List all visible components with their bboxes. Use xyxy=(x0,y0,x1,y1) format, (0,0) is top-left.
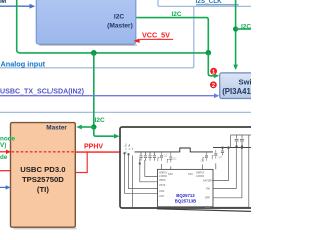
svg-text:USBC_TX_SCL/SDA(IN2): USBC_TX_SCL/SDA(IN2) xyxy=(0,87,85,95)
wire: IC top pin stubs xyxy=(162,163,216,169)
svg-text:2: 2 xyxy=(212,83,215,89)
wire: green right vertical down into switch top xyxy=(235,0,237,66)
svg-text:VSYS: VSYS xyxy=(159,184,166,187)
wire: green from junction down then arrow into switch left edge xyxy=(208,53,215,76)
wire: left rail verticals xyxy=(125,154,158,208)
svg-text:Analog input: Analog input xyxy=(1,60,46,69)
svg-text:SRP: SRP xyxy=(205,197,210,200)
wire: green from lower junction down then arrow right into schematic box xyxy=(94,127,116,136)
node: small dots on left rails xyxy=(124,153,126,155)
svg-text:USBC PD3.0: USBC PD3.0 xyxy=(20,165,65,174)
wire: schematic bottom gnd line sloped right part xyxy=(157,209,251,212)
op: schematic container (BQ25713 reference design) xyxy=(120,127,255,208)
wire: green arrow left into Master pin of PD box xyxy=(80,126,94,128)
svg-text:de: de xyxy=(0,154,8,161)
op: USBC PD3.0 TPS25750D box U2 xyxy=(11,123,77,230)
svg-text:Q3: Q3 xyxy=(201,158,205,162)
svg-text:Q1: Q1 xyxy=(164,154,168,158)
svg-text:SRN: SRN xyxy=(205,206,210,209)
svg-text:LODR1: LODR1 xyxy=(159,175,168,178)
node VCC_5V label with red arrow xyxy=(134,31,174,43)
node: green junction dot at (93.8,127) xyxy=(91,124,96,129)
svg-text:I2C: I2C xyxy=(95,117,105,124)
wire: blue arrow into I2C master box xyxy=(0,5,32,7)
op: I2C master MCU box U1 xyxy=(36,0,137,46)
svg-text:BATDRV: BATDRV xyxy=(203,180,213,183)
svg-text:VCC_5V: VCC_5V xyxy=(142,31,170,40)
wire: green left vertical + bottom horizontal bus xyxy=(17,0,208,53)
capacitor C4 xyxy=(153,152,156,161)
wire: red branch down and left back into PD box xyxy=(76,152,87,172)
transistor Q3 xyxy=(201,152,208,163)
wire: right bus xyxy=(213,147,251,149)
node I2S_CLK label xyxy=(196,0,239,5)
diode D1 xyxy=(240,135,244,146)
wire: blue arrow into PD box left edge xyxy=(0,186,7,188)
svg-text:TPS25750D: TPS25750D xyxy=(22,175,64,184)
wire: red dashed PPHV inside PD box xyxy=(12,151,76,153)
svg-text:ACN: ACN xyxy=(159,190,164,193)
svg-text:BQ25713B: BQ25713B xyxy=(175,199,197,204)
svg-text:Q4: Q4 xyxy=(218,155,222,159)
capacitor C3 xyxy=(148,152,151,161)
wire: green I2C from box right edge to corner down xyxy=(136,18,208,52)
wire: green branch to right edge xyxy=(236,28,251,30)
op-amp U3: BQ25713 IC block xyxy=(158,169,214,209)
svg-text:I2C: I2C xyxy=(114,14,124,21)
svg-text:I2C: I2C xyxy=(241,23,251,30)
wire: purple USBC_TX_SCL/SDA arrow to switch xyxy=(0,95,216,97)
node: red numbered circle 1 xyxy=(210,68,217,76)
capacitor C2 xyxy=(144,152,147,161)
svg-text:SAC: SAC xyxy=(188,173,193,176)
capacitor C1 xyxy=(139,152,142,161)
wire: blue frame bracket top (I2S) xyxy=(158,0,251,6)
diode D2 xyxy=(235,135,239,146)
node: green junction dot at (208.3,52.7) xyxy=(206,50,212,56)
svg-text:Master: Master xyxy=(46,125,67,132)
wire: blue analog-input rail with riser at x=193.8 xyxy=(0,6,194,68)
wire: red line into PD box left edge lower xyxy=(0,170,11,172)
wire: red PPHV solid to schematic with arrow xyxy=(75,151,130,153)
svg-text:BQ25713: BQ25713 xyxy=(176,193,195,198)
svg-text:VBUS: VBUS xyxy=(159,179,166,182)
transistor Q4 xyxy=(212,150,222,159)
transistor Q2 xyxy=(167,152,177,163)
transistor Q1 xyxy=(158,152,168,161)
svg-text:LODR2: LODR2 xyxy=(196,175,205,178)
svg-text:Switch: Switch xyxy=(239,78,251,87)
node: green junction dot at (235.6,29) xyxy=(233,26,238,31)
svg-text:ACP: ACP xyxy=(159,195,164,198)
node: dots on right bus xyxy=(222,147,224,149)
svg-text:1: 1 xyxy=(212,69,215,75)
wire: red dashed PPHV into PD box left xyxy=(0,151,7,153)
svg-text:PPHV: PPHV xyxy=(84,143,103,150)
op: switch box (PI3A4xx) xyxy=(220,73,264,99)
svg-text:(Master): (Master) xyxy=(107,22,133,29)
svg-text:M: M xyxy=(0,0,6,5)
svg-text:(TI): (TI) xyxy=(37,185,49,194)
wire: blue horizontal divider xyxy=(0,111,251,113)
node: red numbered circle 2 xyxy=(210,81,217,89)
node: green junction dot at (93.8,52.9) xyxy=(91,50,97,56)
svg-text:V): V) xyxy=(0,142,6,149)
svg-text:I2C: I2C xyxy=(172,11,182,18)
svg-text:SAC: SAC xyxy=(168,173,173,176)
wire: green vertical x=93.8 down to lower junction xyxy=(93,53,95,127)
capacitor C5 on right bus xyxy=(221,148,224,156)
wire: right column risers to IC right pins xyxy=(213,140,249,207)
svg-text:Q2: Q2 xyxy=(173,157,177,161)
node: input connector doodle xyxy=(125,146,131,149)
diode sub-box top right xyxy=(231,135,251,148)
wire: main VBUS bus with sense-resistor bump xyxy=(135,148,214,152)
svg-text:(PI3A412: (PI3A412 xyxy=(222,87,251,96)
